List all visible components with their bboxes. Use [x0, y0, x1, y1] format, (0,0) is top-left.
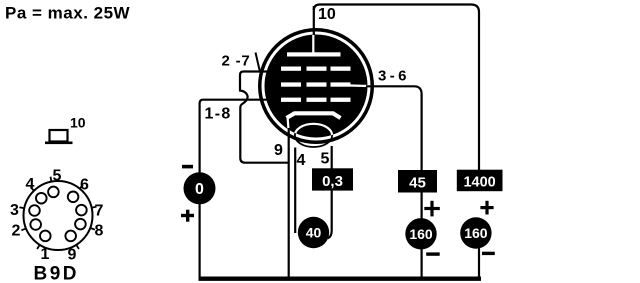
svg-text:160: 160 — [464, 225, 488, 241]
svg-text:160: 160 — [409, 226, 433, 242]
svg-text:0: 0 — [195, 181, 204, 198]
svg-text:45: 45 — [409, 175, 426, 192]
svg-text:6: 6 — [80, 177, 89, 194]
heater supply 40 V — [298, 217, 329, 248]
wire top cap lead crossing envelope — [313, 6, 315, 37]
svg-text:4: 4 — [26, 176, 35, 193]
minus of anode supply — [482, 252, 495, 255]
minus of screen supply — [426, 252, 440, 255]
svg-text:4: 4 — [297, 152, 306, 169]
svg-text:Pa = max. 25W: Pa = max. 25W — [5, 4, 131, 23]
svg-text:9: 9 — [274, 142, 283, 159]
anode value box 1400 — [457, 170, 503, 192]
svg-text:7: 7 — [95, 203, 104, 220]
wire anode top to HT rail — [314, 5, 479, 173]
screen value box 45 — [398, 170, 437, 193]
cathode — [287, 113, 341, 118]
cathode lead inside — [288, 117, 289, 133]
tube envelope V1 — [258, 28, 374, 144]
svg-text:8: 8 — [95, 223, 104, 240]
svg-text:10: 10 — [318, 6, 336, 23]
svg-text:5: 5 — [53, 168, 62, 185]
minus of grid bias — [182, 165, 193, 169]
wire cathode pin 9 down to bus — [288, 128, 290, 278]
anode plate bar — [287, 52, 341, 56]
wire pointer from label 2-7 — [256, 53, 260, 72]
svg-text:2: 2 — [12, 223, 21, 240]
anode supply 160 V — [460, 217, 491, 248]
base pin 8 — [75, 219, 103, 240]
base pin 7 — [76, 203, 103, 220]
base pin 2 — [12, 219, 42, 239]
svg-text:1400: 1400 — [463, 175, 495, 191]
heater — [295, 124, 332, 147]
wire control grid 1-8 — [200, 100, 267, 279]
grid g3 row (top) — [281, 67, 351, 71]
tube base B9D outline — [24, 181, 93, 250]
svg-text:B9D: B9D — [34, 264, 80, 283]
wire heater pin 5 — [328, 146, 332, 238]
heater value box 0,3 — [312, 168, 353, 190]
svg-text:10: 10 — [70, 115, 86, 131]
base pin 1 — [40, 231, 51, 263]
svg-text:3-6: 3-6 — [378, 68, 410, 85]
anode lead inside — [312, 35, 314, 53]
svg-text:40: 40 — [306, 225, 322, 241]
base pin 9 — [65, 231, 76, 264]
plus of anode supply — [480, 201, 493, 215]
wire screen 3-6 down to bus — [366, 86, 422, 278]
svg-text:2 -7: 2 -7 — [222, 53, 251, 70]
base pin 6 — [68, 177, 89, 203]
wire anode supply to bus — [478, 248, 480, 278]
wire heater pin 4 — [294, 148, 296, 234]
plus of grid bias — [181, 210, 194, 222]
plus of screen supply — [424, 201, 440, 217]
wire g3/beam plates 2-7 to cathode — [240, 72, 289, 163]
svg-text:5: 5 — [321, 151, 330, 168]
grid g2 row (middle) — [281, 82, 351, 86]
svg-text:9: 9 — [68, 247, 77, 264]
screen lead inside (3-6) — [350, 84, 368, 87]
grid bias source 0 V — [184, 172, 216, 204]
common bottom bus wire — [199, 277, 482, 281]
svg-text:0,3: 0,3 — [322, 173, 343, 190]
svg-text:1-8: 1-8 — [205, 105, 232, 122]
grid g1 row (bottom) — [281, 98, 351, 102]
svg-text:1: 1 — [41, 246, 50, 263]
base pin ticks — [19, 177, 96, 249]
top cap symbol — [45, 130, 73, 144]
base pin 4 — [26, 176, 47, 204]
svg-text:3: 3 — [10, 202, 19, 219]
screen supply 160 V — [405, 218, 436, 249]
base pin 3 — [10, 202, 40, 219]
base pin 5 — [48, 168, 61, 198]
